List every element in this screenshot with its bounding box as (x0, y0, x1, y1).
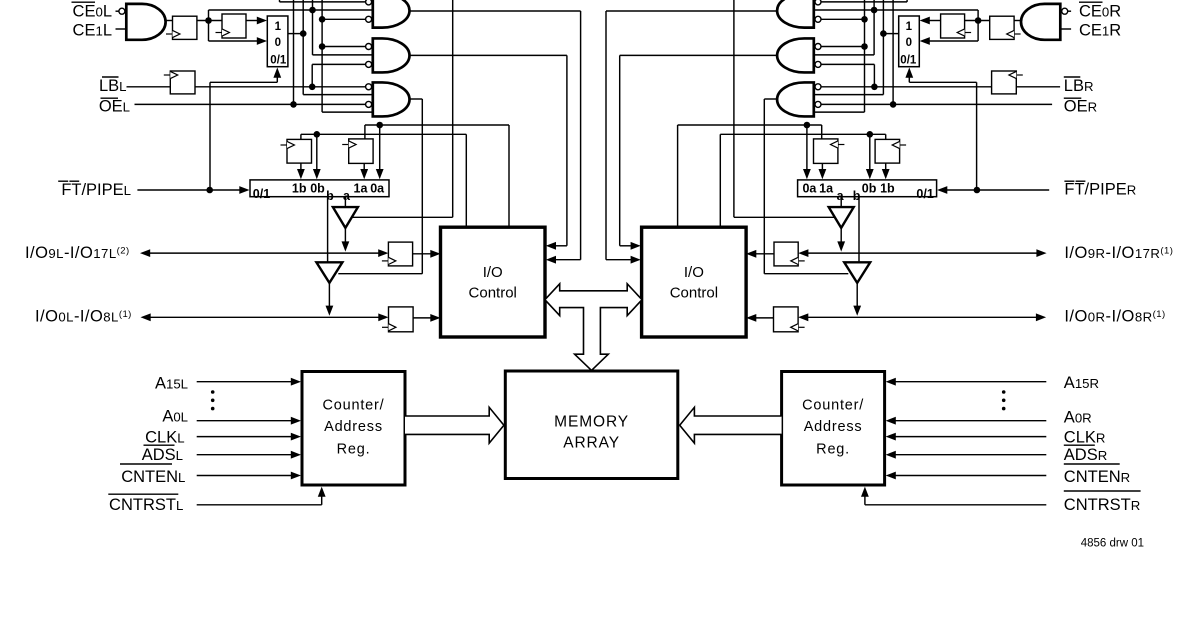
wire pipeline rail b (720, 133, 885, 135)
svg-text:CE0L: CE0L (73, 2, 112, 20)
svg-text:0/1: 0/1 (900, 54, 917, 66)
flip-flop pipe reg b (875, 139, 900, 163)
svg-text:1: 1 (275, 21, 282, 33)
wire a output (840, 197, 842, 207)
wire mux-output bus down to G3 (882, 0, 884, 95)
node CE FF1 output junction (205, 17, 212, 24)
wire LB FF output to G3 (821, 86, 992, 88)
wire output reg to I/O control (413, 253, 431, 255)
address/control arrowheads into counter (291, 378, 301, 386)
node bus junction G2 (861, 43, 868, 50)
svg-text:1: 1 (906, 21, 913, 33)
svg-text:0a: 0a (802, 182, 817, 196)
wire G2 lower bubble feed (821, 63, 875, 65)
wire A15L (197, 381, 293, 383)
svg-text:4856 drw 01: 4856 drw 01 (1081, 538, 1144, 550)
wire driver a enable (352, 216, 453, 218)
wire CE bypass vertical (977, 10, 979, 41)
AND gate G2 (777, 38, 814, 72)
wire I/O9-I/O17 data line (140, 249, 150, 257)
inverting bubbles G1 (366, 0, 372, 5)
ellipsis dots left (211, 390, 215, 394)
mux select box 1/0/0-1 (899, 16, 920, 67)
svg-text:CLKL: CLKL (145, 428, 184, 446)
wire bus (cropped) to G1 top bubble (906, 0, 908, 2)
node OE bus junction (290, 101, 297, 108)
svg-text:b: b (326, 189, 334, 203)
node bypass/bus junction (871, 7, 878, 14)
svg-text:0b: 0b (310, 182, 325, 196)
wire OE bus from top (892, 0, 894, 104)
node bus junction G1 (319, 16, 326, 23)
wire output reg to I/O control lower (413, 317, 431, 319)
wire CNTRSTR (865, 504, 1046, 506)
svg-text:1b: 1b (292, 182, 307, 196)
svg-text:OER: OER (1064, 98, 1097, 116)
wire mux output (883, 33, 898, 35)
svg-text:A0L: A0L (162, 408, 188, 426)
wire CLKL (197, 436, 293, 438)
wire G3 output to output driver enable (764, 98, 777, 100)
left half of schematic (116, 0, 581, 505)
wire driver b to data line (328, 283, 330, 308)
wire G4 output to FF (1014, 20, 1022, 22)
svg-text:LBR: LBR (1064, 77, 1094, 95)
wire 1b (300, 163, 302, 171)
flip-flop output reg upper (388, 242, 412, 266)
AND gate G4 (chip-enable, CE0/CE1) (1021, 4, 1060, 40)
wire A0R (894, 420, 1046, 422)
flip-flop CE pipeline reg 1 (990, 16, 1014, 39)
svg-text:Counter/: Counter/ (802, 398, 864, 414)
bus arrow I/O controls and memory (T shape) (545, 284, 642, 371)
node bus junction G2 (319, 43, 326, 50)
flip-flop LB reg (170, 71, 195, 94)
node FT/PIPE junction (206, 187, 213, 194)
wire I/O9-I/O17 data line (1036, 249, 1046, 257)
flip-flop output reg lower (389, 307, 414, 332)
wire 0b bypass (316, 134, 318, 171)
wire driver a to data line (344, 228, 346, 244)
node OE bus junction (890, 101, 897, 108)
ellipsis dots right (1002, 390, 1006, 394)
node rail b junction (867, 131, 874, 138)
wire driver a enable (734, 216, 835, 218)
wire ADSR (894, 454, 1046, 456)
wire ADSL (197, 454, 293, 456)
inverting bubbles G2 (366, 44, 372, 50)
wire G2 upper bubble feed (821, 46, 865, 48)
wire b output (858, 197, 860, 263)
AND gate G3 (777, 82, 814, 116)
FT/PIPE select register box (250, 180, 389, 197)
wire I/O0-I/O8 data line (141, 313, 151, 321)
svg-text:0: 0 (275, 37, 281, 49)
wire CE bypass top rail to gate G1 (814, 9, 978, 11)
wire b output (327, 197, 329, 263)
AND gate G3 (373, 82, 410, 116)
wire mux-output bus down to G3 (302, 0, 304, 95)
wire 1a (363, 163, 365, 171)
node bus junction G1 (861, 16, 868, 23)
flip-flop pipe reg b (287, 139, 312, 163)
wire OEL line to G3 (821, 103, 1052, 105)
svg-text:0/1: 0/1 (253, 187, 270, 201)
inverting bubbles G2 (815, 44, 821, 50)
wire A0L (197, 420, 293, 422)
svg-text:A15L: A15L (155, 374, 188, 392)
wire G1 output to I/O control (606, 10, 777, 12)
wire CLKR (894, 436, 1046, 438)
wire CE bypass top rail to gate G1 (209, 9, 373, 11)
wire FT/PIPE up to mux select (976, 82, 978, 190)
wire I/O0-I/O8 data line (1036, 313, 1046, 321)
wire 1b (885, 163, 887, 171)
wire rail b down to I/O control (719, 134, 721, 227)
svg-text:I/O: I/O (483, 264, 503, 281)
MEMORY ARRAY block (505, 371, 678, 479)
Counter/Address Reg block (782, 372, 885, 486)
node mux output junction (880, 30, 887, 37)
wire CNTENR (894, 475, 1046, 477)
svg-text:Reg.: Reg. (816, 442, 850, 458)
I/O Control block (441, 227, 546, 337)
svg-text:0/1: 0/1 (270, 54, 287, 66)
node CE FF1 output junction (975, 17, 982, 24)
flip-flop CE pipeline reg 2 (222, 14, 246, 38)
inverting bubbles G3 (815, 84, 821, 90)
svg-text:CE0R: CE0R (1079, 2, 1121, 20)
svg-text:0/1: 0/1 (916, 187, 933, 201)
node rail b junction (314, 131, 321, 138)
svg-text:Address: Address (804, 419, 863, 435)
svg-text:A15R: A15R (1064, 374, 1099, 392)
FT/PIPE select register box (798, 180, 937, 197)
svg-text:Control: Control (670, 285, 718, 302)
svg-text:1b: 1b (880, 182, 895, 196)
wire 0b bypass (869, 134, 871, 171)
svg-text:FT/PIPER: FT/PIPER (1064, 181, 1136, 199)
svg-text:FT/PIPEL: FT/PIPEL (61, 181, 131, 199)
wire a output (344, 197, 346, 207)
svg-text:LBL: LBL (99, 77, 127, 95)
node mux output junction (300, 30, 307, 37)
svg-text:MEMORY: MEMORY (554, 414, 629, 431)
wire bus to G3 lower input (321, 0, 323, 112)
svg-text:CNTRSTR: CNTRSTR (1064, 496, 1140, 514)
svg-text:CE1L: CE1L (73, 22, 112, 40)
node bypass/bus junction (309, 7, 316, 14)
Counter/Address Reg block (302, 372, 405, 486)
buffer driver a (upper) (333, 207, 358, 228)
svg-text:CLKR: CLKR (1064, 428, 1106, 446)
wire mux output (288, 33, 303, 35)
wire OEL line to G3 (135, 103, 366, 105)
node rail a junction (376, 122, 383, 129)
node LB line junction (871, 84, 878, 91)
wire driver b to data line (856, 283, 858, 308)
wire LBL input (1016, 86, 1060, 88)
wire rail a down to I/O control (677, 125, 679, 227)
wire CE0 stub (116, 10, 120, 12)
svg-text:I/O0R-I/O8R(1): I/O0R-I/O8R(1) (1064, 308, 1165, 326)
svg-text:I/O9R-I/O17R(1): I/O9R-I/O17R(1) (1064, 244, 1173, 262)
I/O Control block (642, 227, 747, 337)
wire rail b down to I/O control (465, 134, 467, 227)
AND gate G4 (chip-enable, CE0/CE1) (126, 4, 165, 40)
wire FT/PIPE up to mux select (209, 82, 211, 190)
wire pipeline rail b (301, 133, 466, 135)
wire driver a to data line (840, 228, 842, 244)
wire CE1 stub (116, 28, 127, 30)
svg-text:ARRAY: ARRAY (563, 435, 620, 452)
svg-text:ADSL: ADSL (142, 446, 183, 464)
wire OE bus from top (293, 0, 295, 104)
wire G1 output to I/O control (410, 10, 581, 12)
flip-flop CE pipeline reg 1 (173, 16, 197, 39)
buffer driver a (upper) (829, 207, 854, 228)
buffer driver b (lower) (844, 262, 870, 283)
flip-flop CE pipeline reg 2 (941, 14, 965, 38)
svg-text:0b: 0b (862, 182, 877, 196)
flip-flop output reg lower (774, 307, 799, 332)
wire pipeline rail a (365, 124, 509, 126)
wire CNTRST vertical (864, 494, 866, 505)
svg-text:0: 0 (906, 37, 912, 49)
inverting bubble on G4 CE0 input (119, 8, 125, 14)
wire G1 lower bubble feed (322, 18, 366, 20)
svg-text:OEL: OEL (99, 98, 130, 116)
inverting bubble on G4 CE0 input (1062, 8, 1068, 14)
wire bus to G3 lower input (864, 0, 866, 112)
inverting bubbles G1 (815, 0, 821, 5)
svg-text:a: a (837, 189, 845, 203)
wire rail a down to I/O control (508, 125, 510, 227)
node rail a junction (804, 122, 811, 129)
wire CNTRST vertical (321, 494, 323, 505)
wire CNTENL (197, 475, 293, 477)
bus arrow counter-right to memory (680, 407, 782, 443)
flip-flop pipe reg a (814, 139, 838, 164)
svg-text:1a: 1a (819, 182, 834, 196)
wire LBL input (127, 86, 171, 88)
wire FF2 to mux input 1 (246, 20, 259, 22)
svg-text:1a: 1a (354, 182, 369, 196)
svg-text:Counter/: Counter/ (322, 398, 384, 414)
node LB line junction (309, 84, 316, 91)
wire FT/PIPE input (137, 189, 241, 191)
wire FF1 to FF2 (197, 20, 222, 22)
svg-text:0a: 0a (370, 182, 385, 196)
wire G2 lower bubble feed (312, 63, 366, 65)
node FT/PIPE junction (974, 187, 981, 194)
wire 1a (821, 163, 823, 171)
wire LB FF output to G3 (195, 86, 366, 88)
wire A15R (894, 381, 1046, 383)
wire CE bypass vertical (208, 10, 210, 41)
flip-flop LB reg (992, 71, 1017, 94)
wire G2 output to I/O control (410, 54, 567, 56)
wire G1 lower bubble feed (821, 18, 865, 20)
AND gate G2 (373, 38, 410, 72)
wire G4 output to FF (165, 20, 173, 22)
AND gate G1 (upper byte enable, cropped) (373, 0, 410, 28)
wire pipeline rail a (678, 124, 822, 126)
wire bus to G2 direct input (873, 0, 875, 55)
wire 0a bypass (379, 125, 381, 172)
wire 0a bypass (806, 125, 808, 172)
AND gate G1 (upper byte enable, cropped) (777, 0, 814, 28)
wire G3 output to output driver enable (410, 98, 423, 100)
address/control arrowheads into counter (886, 378, 896, 386)
wire mux input 0 (928, 40, 978, 42)
svg-text:ADSR: ADSR (1064, 446, 1107, 464)
svg-text:Reg.: Reg. (337, 442, 371, 458)
svg-text:a: a (343, 189, 351, 203)
svg-text:b: b (853, 189, 861, 203)
svg-text:CNTENL: CNTENL (121, 468, 185, 486)
svg-text:I/O9L-I/O17L(2): I/O9L-I/O17L(2) (25, 244, 130, 262)
wire bus (cropped) to G1 top bubble (279, 0, 281, 2)
wire output reg to I/O control lower (756, 317, 774, 319)
wire G2 output to I/O control (620, 54, 777, 56)
svg-text:CNTRSTL: CNTRSTL (109, 496, 183, 514)
svg-text:CNTENR: CNTENR (1064, 468, 1130, 486)
svg-text:I/O0L-I/O8L(1): I/O0L-I/O8L(1) (35, 308, 132, 326)
svg-text:A0R: A0R (1064, 409, 1092, 427)
bus arrow counter-left to memory (405, 407, 504, 443)
wire CE1 stub (1060, 28, 1071, 30)
buffer driver b (lower) (316, 262, 342, 283)
wire bus to G2 direct input (312, 0, 314, 55)
wire FT/PIPE input (946, 189, 1050, 191)
wire G2 upper bubble feed (322, 46, 366, 48)
flip-flop output reg upper (774, 242, 798, 266)
svg-text:Address: Address (324, 419, 383, 435)
wire CE0 stub (1067, 10, 1071, 12)
flip-flop pipe reg a (349, 139, 373, 164)
mux select box 1/0/0-1 (267, 16, 288, 67)
inverting bubbles G3 (366, 84, 372, 90)
wire FF1 to FF2 (965, 20, 990, 22)
svg-text:Control: Control (469, 285, 517, 302)
wire mux input 0 (209, 40, 259, 42)
wire CNTRSTL (197, 504, 322, 506)
wire output reg to I/O control (756, 253, 774, 255)
svg-text:CE1R: CE1R (1079, 22, 1121, 40)
svg-text:I/O: I/O (684, 264, 704, 281)
right half of schematic (mirror) (606, 0, 1071, 505)
wire FF2 to mux input 1 (928, 20, 941, 22)
